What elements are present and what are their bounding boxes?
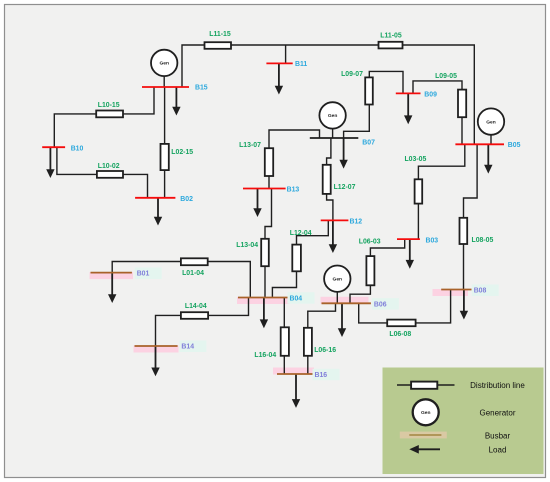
svg-text:B07: B07 bbox=[362, 140, 375, 147]
svg-text:B03: B03 bbox=[426, 238, 439, 245]
svg-text:L16-04: L16-04 bbox=[254, 352, 276, 359]
svg-text:B16: B16 bbox=[315, 372, 328, 379]
svg-text:L06-08: L06-08 bbox=[389, 331, 411, 338]
svg-text:L10-15: L10-15 bbox=[98, 102, 120, 109]
svg-text:L03-05: L03-05 bbox=[404, 156, 426, 163]
svg-text:L06-16: L06-16 bbox=[314, 347, 336, 354]
svg-text:Load: Load bbox=[489, 445, 507, 454]
svg-text:L02-15: L02-15 bbox=[171, 149, 193, 156]
svg-text:B08: B08 bbox=[474, 288, 487, 295]
svg-text:B14: B14 bbox=[181, 344, 194, 351]
svg-text:B09: B09 bbox=[424, 91, 437, 98]
svg-text:Distribution line: Distribution line bbox=[470, 381, 525, 390]
svg-text:L14-04: L14-04 bbox=[185, 303, 207, 310]
svg-text:L12-07: L12-07 bbox=[334, 184, 356, 191]
svg-text:B12: B12 bbox=[350, 218, 363, 225]
svg-text:L06-03: L06-03 bbox=[359, 239, 381, 246]
svg-text:Gen: Gen bbox=[328, 113, 338, 119]
svg-text:L13-04: L13-04 bbox=[236, 242, 258, 249]
svg-text:L12-04: L12-04 bbox=[290, 230, 312, 237]
svg-text:B05: B05 bbox=[508, 142, 521, 149]
svg-text:B01: B01 bbox=[137, 271, 150, 278]
svg-text:Generator: Generator bbox=[479, 409, 515, 418]
svg-text:L09-05: L09-05 bbox=[435, 73, 457, 80]
svg-text:B15: B15 bbox=[195, 84, 208, 91]
svg-text:B13: B13 bbox=[287, 186, 300, 193]
svg-text:L11-05: L11-05 bbox=[380, 33, 402, 40]
svg-text:L11-15: L11-15 bbox=[209, 31, 231, 38]
svg-text:L10-02: L10-02 bbox=[98, 163, 120, 170]
svg-text:B02: B02 bbox=[180, 196, 193, 203]
svg-text:L08-05: L08-05 bbox=[472, 237, 494, 244]
svg-text:B10: B10 bbox=[71, 145, 84, 152]
svg-text:L09-07: L09-07 bbox=[341, 71, 363, 78]
svg-text:L13-07: L13-07 bbox=[239, 142, 261, 149]
svg-text:B04: B04 bbox=[290, 295, 303, 302]
svg-text:B06: B06 bbox=[374, 301, 387, 308]
svg-text:L01-04: L01-04 bbox=[182, 270, 204, 277]
svg-text:Gen: Gen bbox=[486, 119, 496, 125]
svg-text:B11: B11 bbox=[295, 61, 307, 68]
svg-text:Gen: Gen bbox=[333, 277, 343, 283]
svg-text:Gen: Gen bbox=[159, 61, 169, 67]
svg-text:Gen: Gen bbox=[421, 410, 431, 416]
svg-text:Busbar: Busbar bbox=[485, 432, 511, 441]
